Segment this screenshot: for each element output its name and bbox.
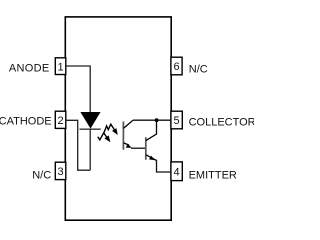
wire: Q2 emitter down then right to pin 4	[157, 160, 171, 172]
transistor Q2 collector stroke and wire up to rail	[146, 120, 157, 140]
svg-text:3: 3	[58, 166, 64, 178]
svg-text:4: 4	[174, 166, 180, 178]
pin 6 box	[171, 57, 182, 75]
transistor Q2 base bar	[145, 137, 147, 160]
transistor Q2 emitter stroke with arrow	[146, 155, 156, 161]
svg-text:1: 1	[58, 62, 64, 74]
transistor Q1 emitter stroke with arrow	[124, 143, 132, 148]
pin 5 box	[171, 111, 182, 129]
photon arrow (upper) from LED to detector	[104, 124, 118, 135]
photon arrow (lower) from LED to detector	[98, 133, 111, 143]
wire: LED cathode down	[89, 129, 91, 170]
wire: collector rail to pin 5	[133, 119, 171, 121]
wire: Q1 emitter to Q2 base	[131, 147, 146, 149]
LED D1 cathode bar	[80, 128, 101, 130]
package outline (6-pin DIP body)	[65, 17, 171, 220]
svg-text:5: 5	[174, 115, 180, 127]
svg-text:CATHODE: CATHODE	[0, 115, 52, 127]
wire: pin 1 to LED anode (right then down)	[66, 66, 90, 112]
svg-text:6: 6	[173, 61, 179, 73]
svg-text:COLLECTOR: COLLECTOR	[189, 116, 254, 128]
svg-text:N/C: N/C	[32, 169, 51, 181]
svg-text:N/C: N/C	[189, 63, 208, 75]
svg-text:2: 2	[58, 115, 64, 127]
transistor Q1 collector stroke	[124, 120, 133, 128]
junction dot (collectors tied)	[155, 118, 159, 122]
pin 2 box	[55, 111, 66, 128]
svg-text:EMITTER: EMITTER	[189, 169, 237, 181]
wire: pin 2 to cathode (right, down, right U-route)	[66, 120, 90, 170]
LED D1 anode triangle (emitting diode)	[80, 112, 100, 129]
pin 1 box	[55, 58, 66, 75]
svg-text:ANODE: ANODE	[9, 63, 50, 75]
transistor Q1 base bar	[122, 122, 124, 150]
pin 4 box	[171, 162, 182, 181]
pin 3 box	[55, 162, 66, 179]
